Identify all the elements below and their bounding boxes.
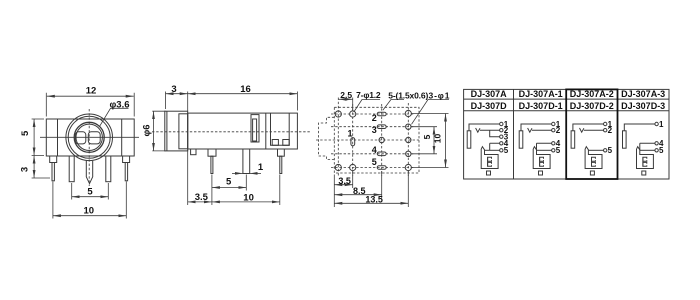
svg-text:5: 5 xyxy=(556,146,561,155)
svg-text:3: 3 xyxy=(19,167,30,172)
svg-text:φ3.6: φ3.6 xyxy=(109,99,129,110)
svg-text:DJ-307A-2: DJ-307A-2 xyxy=(570,89,614,99)
svg-text:5-(1.5x0.6): 5-(1.5x0.6) xyxy=(388,90,428,100)
svg-text:5: 5 xyxy=(372,157,377,167)
svg-text:2: 2 xyxy=(608,126,613,135)
svg-text:16: 16 xyxy=(240,84,251,95)
svg-text:DJ-307D-1: DJ-307D-1 xyxy=(519,101,563,111)
svg-text:1: 1 xyxy=(659,120,664,129)
svg-text:5: 5 xyxy=(504,146,509,155)
svg-text:12: 12 xyxy=(86,85,97,96)
svg-text:φ6: φ6 xyxy=(141,124,152,136)
svg-text:DJ-307A-1: DJ-307A-1 xyxy=(519,89,563,99)
svg-text:10: 10 xyxy=(432,134,442,144)
svg-text:13.5: 13.5 xyxy=(365,194,383,204)
svg-text:5: 5 xyxy=(422,134,432,139)
svg-text:DJ-307A: DJ-307A xyxy=(471,89,508,99)
svg-text:7-φ1.2: 7-φ1.2 xyxy=(356,90,381,100)
svg-text:4: 4 xyxy=(372,145,377,155)
svg-text:3: 3 xyxy=(171,84,176,95)
svg-text:5: 5 xyxy=(87,187,93,198)
svg-text:DJ-307D-2: DJ-307D-2 xyxy=(570,101,614,111)
svg-text:3: 3 xyxy=(372,125,377,135)
svg-text:1: 1 xyxy=(347,129,352,139)
svg-text:5: 5 xyxy=(659,146,664,155)
svg-text:3-φ1: 3-φ1 xyxy=(429,91,450,101)
svg-text:5: 5 xyxy=(226,176,232,187)
svg-text:3.5: 3.5 xyxy=(338,176,351,186)
svg-text:2.5: 2.5 xyxy=(340,90,352,100)
svg-text:2: 2 xyxy=(556,126,561,135)
svg-text:DJ-307A-3: DJ-307A-3 xyxy=(621,89,665,99)
svg-text:5: 5 xyxy=(608,146,613,155)
svg-text:3.5: 3.5 xyxy=(195,192,209,203)
svg-text:2: 2 xyxy=(372,113,377,123)
svg-text:10: 10 xyxy=(84,206,95,217)
svg-text:DJ-307D-3: DJ-307D-3 xyxy=(621,101,665,111)
svg-text:8.5: 8.5 xyxy=(353,186,366,196)
svg-text:5: 5 xyxy=(20,130,31,136)
svg-text:10: 10 xyxy=(243,193,254,204)
svg-text:1: 1 xyxy=(258,162,264,173)
svg-text:DJ-307D: DJ-307D xyxy=(471,101,508,111)
